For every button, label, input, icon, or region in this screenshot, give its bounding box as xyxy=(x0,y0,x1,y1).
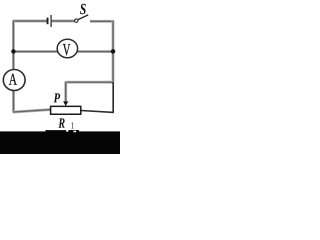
battery B1: short thick negative plate xyxy=(47,18,49,25)
battery B1: long thin positive plate xyxy=(51,15,52,27)
voltmeter U1: circle xyxy=(57,39,77,58)
black redaction bar xyxy=(0,131,120,154)
resistor R1 body xyxy=(51,106,81,114)
wire: V branch left xyxy=(13,50,59,53)
wire: rheostat right to bottom-right corner xyxy=(81,111,114,113)
node: right junction dot xyxy=(111,49,116,54)
label V (voltmeter) xyxy=(63,44,71,55)
label A (ammeter) xyxy=(9,74,17,85)
wire: battery to switch xyxy=(52,20,75,23)
wire: left vertical lower xyxy=(12,90,15,113)
label S (switch) xyxy=(80,4,86,14)
ammeter U2: circle xyxy=(3,70,25,91)
caption fragment above bar (right bump) xyxy=(69,130,80,133)
wire: wiper horizontal xyxy=(66,81,113,84)
wiper arrowhead xyxy=(63,101,68,106)
wire: left vertical upper xyxy=(12,20,15,70)
label P (wiper) xyxy=(54,93,61,102)
label R (resistor) xyxy=(58,118,64,127)
label 1 (subscript of R1) xyxy=(71,122,73,128)
wire: V branch right xyxy=(77,50,113,53)
caption white notch in bar xyxy=(73,131,76,133)
wire: switch to top-right corner xyxy=(90,20,114,23)
node: left junction dot xyxy=(11,49,15,53)
caption white tick in bar xyxy=(66,130,68,132)
wire: bottom-left to rheostat xyxy=(13,110,51,113)
switch S: pivot circle xyxy=(75,19,78,22)
wire: right vertical upper xyxy=(112,21,115,83)
switch S: blade xyxy=(78,15,88,20)
wire: wiper vertical xyxy=(64,82,67,103)
wire: top-left to battery xyxy=(13,20,47,23)
caption fragment above bar (left bump) xyxy=(46,130,67,133)
wire: right vertical lower (darker) xyxy=(112,82,114,113)
